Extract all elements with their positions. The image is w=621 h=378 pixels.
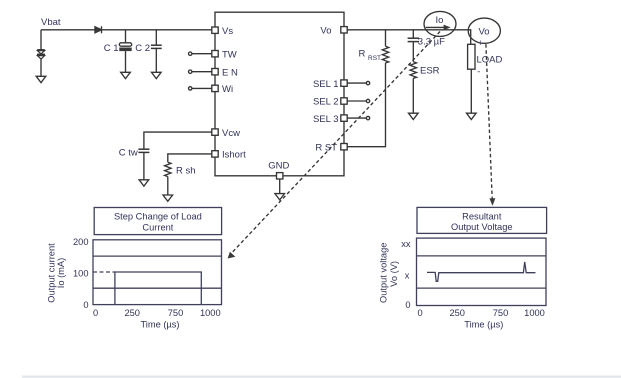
svg-text:100: 100 xyxy=(73,269,89,279)
left graph gridline 150 xyxy=(93,255,222,257)
wire LOAD to ground xyxy=(470,69,472,113)
svg-text:Io (mA): Io (mA) xyxy=(56,258,66,288)
svg-text:750: 750 xyxy=(493,308,509,318)
right graph plot box xyxy=(417,238,547,305)
svg-text:Vo: Vo xyxy=(478,26,489,37)
svg-text:Step Change of Load: Step Change of Load xyxy=(114,212,202,222)
resistor RRST xyxy=(382,46,388,63)
capacitor Ctw xyxy=(138,149,149,152)
wire to capacitor C1 xyxy=(125,30,127,43)
svg-text:Output voltage: Output voltage xyxy=(378,243,388,303)
svg-text:250: 250 xyxy=(449,308,465,318)
svg-text:Vbat: Vbat xyxy=(41,17,61,28)
ground under GND pin xyxy=(275,194,285,200)
left graph step waveform xyxy=(115,272,201,305)
wire diode to Vs pin xyxy=(102,29,212,31)
wire Ctw to ground xyxy=(143,152,145,179)
svg-text:1000: 1000 xyxy=(524,308,545,318)
svg-text:E N: E N xyxy=(222,67,238,78)
left graph y tick labels xyxy=(73,237,89,310)
svg-text:+: + xyxy=(478,38,483,48)
wire Ishort to Rsh xyxy=(168,154,212,162)
left graph plot box xyxy=(93,240,222,305)
left graph x axis title xyxy=(140,320,179,330)
wire Rsh to ground xyxy=(167,177,169,195)
svg-text:Io: Io xyxy=(436,15,444,26)
svg-text:C 1: C 1 xyxy=(104,43,119,54)
svg-text:0: 0 xyxy=(93,308,98,318)
resistor ESR xyxy=(410,62,416,79)
svg-text:C 2: C 2 xyxy=(135,43,150,54)
dashed callout from Vo probe to right graph xyxy=(486,44,496,206)
svg-text:200: 200 xyxy=(73,237,89,247)
left graph gridline 50 xyxy=(93,287,222,289)
ground under TVS xyxy=(36,76,46,82)
svg-text:-: - xyxy=(477,67,480,77)
wire Vbat down to TVS xyxy=(40,30,42,50)
svg-text:250: 250 xyxy=(124,308,140,318)
pin Vo xyxy=(320,26,347,37)
svg-text:Vcw: Vcw xyxy=(222,128,240,139)
label C1 xyxy=(104,43,119,54)
right graph y axis title xyxy=(378,243,399,303)
svg-text:x: x xyxy=(405,270,410,280)
label RRST xyxy=(359,49,382,63)
wire GND pin to ground xyxy=(279,179,281,194)
ground under Ctw xyxy=(139,180,149,186)
svg-text:Ishort: Ishort xyxy=(222,150,246,161)
wire to capacitor C2 xyxy=(155,30,157,45)
svg-text:0: 0 xyxy=(418,308,423,318)
ground under ESR xyxy=(409,113,419,119)
svg-text:Resultant: Resultant xyxy=(462,211,502,221)
pin TW xyxy=(189,49,237,60)
resistor LOAD xyxy=(468,44,503,69)
svg-text:LOAD: LOAD xyxy=(477,55,503,66)
wire C1 to ground xyxy=(125,51,127,72)
wire to output capacitor xyxy=(412,30,414,38)
wire TVS to ground xyxy=(40,59,42,76)
label plus xyxy=(478,38,483,48)
wire Vo output xyxy=(347,30,471,45)
label Ctw xyxy=(119,147,138,158)
svg-text:0: 0 xyxy=(83,300,88,310)
right graph x tick labels xyxy=(418,308,545,318)
pin SEL2 xyxy=(313,97,370,108)
svg-text:1000: 1000 xyxy=(200,308,221,318)
pin GND xyxy=(268,160,289,179)
pin Ishort xyxy=(212,150,246,161)
label C2 xyxy=(135,43,150,54)
label ESR xyxy=(420,66,440,77)
current probe Io xyxy=(424,11,456,36)
pin Vcw xyxy=(212,128,240,139)
footer rule xyxy=(22,376,621,378)
wire Vbat to diode xyxy=(41,29,95,31)
wire RRST branch xyxy=(347,30,385,147)
svg-text:GND: GND xyxy=(268,160,289,171)
pin Vs xyxy=(212,26,234,37)
svg-text:Wi: Wi xyxy=(222,84,233,95)
svg-text:C tw: C tw xyxy=(119,147,138,158)
svg-text:Vs: Vs xyxy=(222,26,233,37)
svg-text:R: R xyxy=(359,49,366,60)
svg-text:Current: Current xyxy=(142,222,173,232)
pin Wi xyxy=(189,84,234,95)
ground under C1 xyxy=(121,72,131,78)
pin RST xyxy=(315,142,347,153)
ground under Rsh xyxy=(163,195,173,201)
svg-text:3.3 µF: 3.3 µF xyxy=(418,36,445,47)
svg-text:Output Voltage: Output Voltage xyxy=(451,222,513,232)
right graph x axis title xyxy=(464,320,503,330)
svg-text:Vo: Vo xyxy=(320,26,331,37)
left graph dashed level 100 xyxy=(93,271,115,273)
svg-text:Time (µs): Time (µs) xyxy=(464,320,503,330)
right graph title box xyxy=(417,207,547,233)
wire C2 to ground xyxy=(155,48,157,72)
ground under C2 xyxy=(152,72,162,78)
label minus xyxy=(477,67,480,77)
svg-text:SEL 3: SEL 3 xyxy=(313,114,339,125)
svg-text:R sh: R sh xyxy=(176,166,196,177)
capacitor C2 xyxy=(151,45,162,48)
svg-text:TW: TW xyxy=(222,49,237,60)
left graph x tick labels xyxy=(93,308,221,318)
node Vbat xyxy=(41,17,61,28)
zener TVS D2 xyxy=(37,50,45,59)
svg-text:0: 0 xyxy=(405,300,410,310)
right graph upper gridline xyxy=(417,255,547,257)
right graph y tick labels xyxy=(401,239,411,310)
left graph y axis title xyxy=(47,243,66,303)
svg-text:ESR: ESR xyxy=(420,66,440,77)
voltage probe Vo xyxy=(468,18,500,43)
capacitor 3.3uF xyxy=(408,38,419,41)
right graph lower gridline xyxy=(417,287,547,289)
svg-text:SEL 1: SEL 1 xyxy=(313,79,339,90)
label Rsh xyxy=(176,166,196,177)
wire Vcw to Ctw xyxy=(144,132,212,149)
svg-text:750: 750 xyxy=(168,308,184,318)
label 3.3uF xyxy=(418,36,445,47)
svg-text:Time (µs): Time (µs) xyxy=(140,320,179,330)
wire ESR to ground xyxy=(412,78,414,113)
svg-text:xx: xx xyxy=(401,239,411,249)
left graph title box xyxy=(94,208,221,235)
dashed callout from Io to left graph xyxy=(228,32,440,259)
pin EN xyxy=(189,67,238,78)
svg-text:Vo (V): Vo (V) xyxy=(389,261,399,287)
IC U1 body xyxy=(215,12,344,176)
diode D1 xyxy=(95,26,102,33)
wire cap to ESR xyxy=(412,42,414,62)
pin SEL3 xyxy=(313,114,370,125)
svg-text:RST: RST xyxy=(368,55,381,62)
right graph voltage waveform xyxy=(427,262,536,281)
svg-text:SEL 2: SEL 2 xyxy=(313,97,339,108)
capacitor C1 xyxy=(119,43,131,51)
ground under LOAD xyxy=(467,113,477,119)
pin SEL1 xyxy=(313,79,370,90)
resistor Rsh xyxy=(165,162,171,176)
